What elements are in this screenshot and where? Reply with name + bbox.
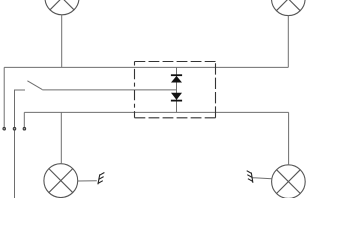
lamp E2 (top right) [272,0,306,16]
wire top bus [4,66,288,68]
wire lamp E3 drop [60,112,62,164]
lamp E3 (bottom left) [44,164,78,198]
wire bottom bus [24,111,288,113]
wire supply feed below terminal [14,130,16,199]
switch S1 blade [27,81,42,90]
wire lamp E4 drop [288,112,290,165]
flasher unit dashed enclosure [135,62,216,118]
wire lamp E4 to ground [252,178,271,179]
wire switch to diode node [42,89,176,91]
ground (right chassis symbol) [247,171,253,183]
lamp E4 (bottom right) [272,165,306,199]
diode V1 (cathode up) [171,75,182,82]
ground (left chassis symbol) [98,173,105,185]
terminal node 3 [23,127,26,130]
wire left riser bottom bus to terminal [23,112,25,127]
switch S1 fixed contact [15,90,26,128]
diode V2 (cathode down) [171,93,182,101]
wire left drop from top bus to terminal [3,67,5,127]
wire lamp E3 to ground [78,180,97,182]
wire diode chain vertical [176,67,178,112]
lamp E1 (top left) [45,0,79,15]
wire lamp E2 drop [287,15,289,67]
terminal node 1 [3,127,6,130]
terminal node 2 [13,127,16,130]
wire lamp E1 drop [61,15,63,68]
